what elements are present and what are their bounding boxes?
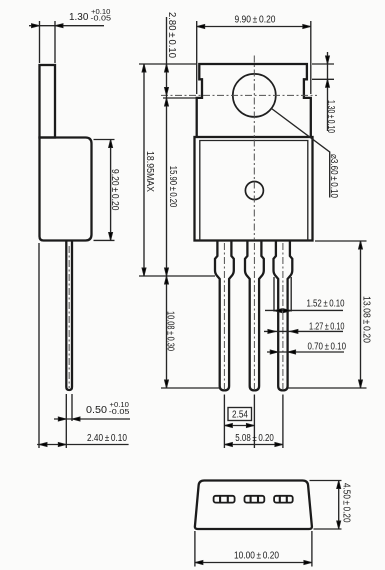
- dim 1.30 arrows: [32, 24, 40, 28]
- lead 1 outline: [215, 241, 234, 390]
- dim 5.08 dimension line: [224, 444, 283, 446]
- dim 9.90 arrows: [197, 25, 205, 29]
- dim 0.70 dimension line: [267, 351, 344, 353]
- dim 1.30 notch dimension line: [327, 52, 329, 131]
- dim 0.50 dimension line: [54, 418, 130, 420]
- tick at shoulder plane: [139, 275, 215, 277]
- svg-text:-0.05: -0.05: [109, 409, 130, 416]
- svg-text:10.00 ± 0.20: 10.00 ± 0.20: [234, 551, 279, 562]
- svg-text:1.30: 1.30: [69, 12, 89, 23]
- vertical centerline: [253, 56, 255, 241]
- dim 1.27 dimension line: [264, 330, 343, 332]
- dim 2.80 arrows: [165, 64, 169, 72]
- svg-text:⌀3.60 ± 0.10: ⌀3.60 ± 0.10: [328, 154, 339, 198]
- dim 10.08 arrows: [165, 276, 169, 284]
- dim 0.50 lead thickness: extension lines: [66, 394, 72, 448]
- small hole: [245, 182, 263, 200]
- svg-text:0.70 ± 0.10: 0.70 ± 0.10: [308, 342, 347, 353]
- bottom view body outline: [195, 481, 312, 530]
- dim 15.90 dimension line: [166, 98, 168, 276]
- svg-text:2.40 ± 0.10: 2.40 ± 0.10: [87, 433, 127, 444]
- lead 2 outline: [245, 241, 264, 390]
- dim 0.50 arrows: [58, 417, 66, 421]
- dim 9.90: extension lines: [197, 21, 311, 94]
- dim 4.50 ticks: [310, 481, 342, 530]
- dim 2.54 dimension line: [224, 425, 254, 427]
- side view lead centerline: [68, 246, 70, 388]
- dim 4.50 arrows: [337, 481, 341, 489]
- dim 4.50 dimension line: [338, 481, 340, 530]
- svg-text:18.95MAX: 18.95MAX: [144, 151, 155, 192]
- svg-text:1.52 ± 0.10: 1.52 ± 0.10: [307, 299, 345, 310]
- svg-text:5.08 ± 0.20: 5.08 ± 0.20: [235, 433, 274, 444]
- dim 9.20 body height: extension ticks: [94, 140, 115, 241]
- dim 2.40 arrows: [39, 443, 47, 447]
- horizontal hole centerline: [161, 94, 317, 96]
- dim 5.08 arrows: [224, 443, 232, 447]
- dim 1.30 notch: ticks: [312, 64, 334, 79]
- svg-text:0.50: 0.50: [86, 405, 107, 416]
- svg-text:15.90 ± 0.20: 15.90 ± 0.20: [167, 166, 178, 208]
- dim 2.40 dimension line: [37, 444, 129, 446]
- tick at notch step: [163, 97, 197, 99]
- hole diameter leader line: [272, 109, 330, 198]
- dim 1.52 dimension line: [265, 309, 343, 311]
- svg-text:4.50 ± 0.20: 4.50 ± 0.20: [341, 483, 352, 523]
- svg-text:9.90 ± 0.20: 9.90 ± 0.20: [235, 15, 276, 26]
- dim 10.00 arrows: [195, 561, 203, 565]
- dim 18.95MAX dimension line: [143, 64, 145, 276]
- tick at tab top: [139, 63, 196, 65]
- front view body outline: [195, 137, 313, 241]
- dim 1.27 arrows: [268, 329, 276, 333]
- bottom view lead 2 section: [245, 496, 265, 503]
- side view tab: [40, 65, 56, 138]
- dim 13.08: tick at body bottom right: [315, 240, 367, 242]
- bottom view lead 3 section: [274, 496, 293, 503]
- tick at lead tips right: [288, 387, 367, 389]
- svg-text:1.30 ± 0.10: 1.30 ± 0.10: [325, 100, 336, 133]
- dim 1.52 arrows: [274, 309, 282, 313]
- dim 13.08 arrows: [359, 241, 363, 249]
- dim 9.20 dimension line: [110, 140, 112, 241]
- lead 2 centerline: [253, 243, 255, 390]
- tick at lead tips left: [161, 387, 220, 389]
- lead 1 centerline: [223, 243, 225, 390]
- dim 9.20 arrows: [109, 140, 113, 148]
- dim 10.08 dimension line: [166, 276, 168, 388]
- svg-text:1.27 ± 0.10: 1.27 ± 0.10: [309, 322, 345, 333]
- lead pitch extension lines: [224, 395, 283, 449]
- dim 13.08 dimension line: [360, 241, 362, 388]
- side view lead: [66, 241, 72, 391]
- dim 2.54 box: [228, 408, 252, 421]
- dim 1.30 tab thickness: dimension line: [29, 25, 104, 27]
- dim 1.30 tab thickness: extension lines: [40, 21, 56, 63]
- front view body inner chamfer lines: [200, 141, 308, 241]
- dim 0.70 arrows: [270, 350, 278, 354]
- svg-text:2.80 ± 0.10: 2.80 ± 0.10: [166, 12, 177, 58]
- dim 18.95 arrows: [142, 64, 146, 72]
- dim 2.54 arrows: [224, 424, 232, 428]
- dim 1.30 notch arrows: [326, 56, 330, 64]
- svg-text:10.08 ± 0.30: 10.08 ± 0.30: [164, 311, 175, 351]
- svg-text:-0.05: -0.05: [91, 16, 112, 23]
- side view body: [40, 138, 92, 241]
- svg-text:13.08 ± 0.20: 13.08 ± 0.20: [361, 296, 372, 343]
- dim 15.90 arrows: [165, 98, 169, 106]
- dim 10.00 extension lines: [195, 531, 312, 567]
- dim 9.90 dimension line: [197, 26, 311, 28]
- lead 3 outline: [274, 241, 293, 390]
- dim 2.40: extension line from body face: [38, 243, 40, 448]
- front view tab outline with notches: [197, 64, 311, 137]
- dim 10.00 dimension line: [195, 562, 312, 564]
- svg-text:9.20 ± 0.20: 9.20 ± 0.20: [109, 169, 120, 211]
- dim 1.52: extension bars along lead 3: [274, 277, 291, 312]
- dim 2.80 line: [166, 17, 168, 98]
- lead 3 centerline: [282, 243, 284, 390]
- bottom view lead 1 section: [214, 496, 235, 503]
- mounting hole: [233, 74, 276, 117]
- svg-text:2.54: 2.54: [232, 410, 248, 421]
